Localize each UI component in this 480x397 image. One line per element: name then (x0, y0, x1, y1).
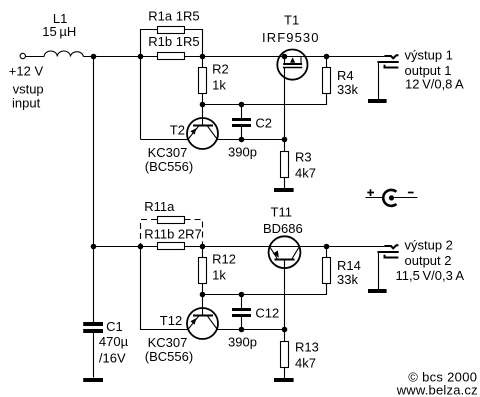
svg-text:výstup 2: výstup 2 (405, 237, 453, 252)
node rail left of R1b (138, 54, 144, 60)
capacitor C2 plate 2 (232, 124, 251, 127)
label R12 1k (212, 252, 236, 283)
resistor R1a (158, 27, 185, 34)
polarity plus sign (367, 189, 374, 196)
svg-text:12 V/0,8 A: 12 V/0,8 A (405, 76, 464, 91)
resistor R14 (323, 258, 331, 284)
wire input to L1 (26, 56, 45, 58)
transistor T1 circle (277, 50, 307, 80)
output 2 connector tip zigzag (384, 245, 398, 248)
svg-text:T1: T1 (284, 13, 299, 28)
svg-text:T2: T2 (170, 123, 185, 138)
capacitor C2 top lead (241, 105, 243, 119)
T2 emitter arrow (190, 128, 196, 135)
ground under output 1 (368, 99, 387, 103)
svg-text:R14: R14 (337, 258, 361, 273)
svg-text:R1a 1R5: R1a 1R5 (148, 8, 199, 23)
capacitor C1 bottom lead (93, 333, 95, 378)
node lower rail right of R11b (200, 244, 206, 250)
svg-text:R12: R12 (212, 252, 236, 267)
svg-text:C1: C1 (106, 319, 123, 334)
T2 base lead (202, 105, 204, 126)
T12 collector diagonal (208, 316, 218, 329)
svg-text:33k: 33k (337, 272, 358, 287)
resistor R13 (281, 342, 289, 368)
svg-text:R2: R2 (212, 62, 229, 77)
wire T2 collector to R3 node (217, 139, 285, 141)
resistor R4 top lead (326, 57, 328, 68)
node rail right of R1b (200, 54, 206, 60)
T12 emitter arrow (190, 318, 196, 325)
label C2 390p (228, 116, 272, 160)
output 1 connector contact hook (385, 65, 399, 68)
svg-text:R11b 2R7: R11b 2R7 (144, 226, 202, 241)
svg-text:+12 V: +12 V (9, 64, 44, 79)
node rail R4 top (324, 54, 330, 60)
label T12 KC307 (BC556) (145, 313, 193, 364)
wire gate line from R2 bottom to R4 bottom (203, 94, 327, 105)
resistor R12 top lead (202, 247, 204, 258)
T11 base bar (275, 259, 295, 261)
node T12-collector/T11-base/R13 junction (282, 327, 288, 333)
wire L1 to R1b (83, 56, 157, 58)
node T1 source on rail (282, 54, 288, 60)
svg-text:vstup: vstup (13, 81, 44, 96)
resistor R2 top lead (202, 57, 204, 68)
T11 emitter diagonal (270, 247, 277, 258)
node T2-collector/T1-gate/R3 junction (282, 137, 288, 143)
capacitor C12 plate 2 (232, 314, 251, 317)
polarity minus sign (408, 192, 414, 194)
output 2 connector contact hook (385, 255, 399, 258)
node R2/T2-base/gate-line junction (200, 102, 206, 108)
label vystup 2 / output 2 / 11,5V 0,3A (396, 237, 465, 283)
input terminal +12V (20, 53, 25, 58)
label T1 IRF9530 (262, 13, 320, 45)
label R3 4k7 (295, 150, 316, 181)
svg-text:R13: R13 (295, 340, 319, 355)
svg-text:11,5 V/0,3 A: 11,5 V/0,3 A (396, 268, 465, 283)
T1 drain stub (300, 57, 302, 64)
wire lower rail left (94, 246, 158, 248)
T1 source stub (284, 57, 286, 64)
wire lower rail R11b to output 2 (185, 246, 385, 248)
svg-text:390p: 390p (228, 145, 257, 160)
resistor R12 bottom lead (202, 284, 204, 295)
node lower rail / C1 branch (91, 244, 97, 250)
node C12 top (239, 292, 245, 298)
wire R1a branch left side (141, 30, 158, 140)
resistor R11b (158, 243, 185, 250)
svg-text:/16V: /16V (99, 351, 126, 366)
resistor R12 (199, 258, 207, 284)
svg-text:4k7: 4k7 (295, 165, 316, 180)
svg-text:KC307: KC307 (148, 335, 188, 350)
node C12 bottom (239, 327, 245, 333)
svg-text:1k: 1k (212, 268, 226, 283)
T2 base bar (193, 125, 213, 127)
output 1 ground lead (378, 63, 380, 99)
capacitor C2 bottom lead (241, 127, 243, 140)
ground under C1 (83, 378, 103, 382)
label R13 4k7 (295, 340, 319, 371)
label R14 33k (337, 258, 361, 287)
wire T12 emitter to left branch (141, 247, 189, 330)
node rail/C1 branch junction (91, 54, 97, 60)
svg-text:C2: C2 (255, 116, 272, 131)
svg-text:C12: C12 (255, 306, 279, 321)
wire base line from R12 bottom to R14 bottom (203, 284, 327, 295)
transistor T2 circle (187, 118, 218, 149)
node lower rail left of R11b (138, 244, 144, 250)
resistor R2 bottom lead (202, 94, 204, 105)
svg-text:BD686: BD686 (263, 221, 303, 236)
svg-text:4k7: 4k7 (295, 355, 316, 370)
polarity left lead (366, 197, 383, 199)
label R4 33k (337, 68, 358, 97)
transistor T12 circle (187, 308, 218, 339)
svg-text:IRF9530: IRF9530 (262, 30, 320, 45)
T1 gate lead down (284, 68, 286, 140)
label T11 BD686 (263, 205, 303, 237)
svg-text:390p: 390p (228, 335, 257, 350)
resistor R4 (323, 68, 331, 94)
label T2 KC307 (BC556) (145, 123, 193, 175)
svg-text:R3: R3 (295, 150, 312, 165)
capacitor C2 plate 1 (232, 118, 251, 121)
T11 emitter arrow (273, 251, 279, 258)
output 1 connector tip zigzag (384, 55, 398, 58)
node C2 top (239, 102, 245, 108)
node R12/T12-base junction (200, 292, 206, 298)
capacitor C12 bottom lead (241, 317, 243, 330)
node C2 bottom (239, 137, 245, 143)
label R2 1k (212, 62, 229, 93)
capacitor C1 plate 1 (83, 322, 103, 326)
capacitor C12 top lead (241, 295, 243, 309)
svg-text:www.belza.cz: www.belza.cz (396, 383, 478, 397)
output 2 connector sleeve bar (377, 251, 398, 253)
polarity barrel C ring (383, 190, 396, 206)
svg-text:input: input (12, 95, 41, 110)
svg-text:T12: T12 (160, 313, 182, 328)
svg-text:T11: T11 (271, 205, 292, 220)
svg-text:1k: 1k (212, 78, 226, 93)
svg-text:output 2: output 2 (405, 253, 452, 268)
resistor R11a (158, 217, 185, 224)
svg-text:R1b 1R5: R1b 1R5 (148, 34, 199, 49)
svg-text:470µ: 470µ (99, 334, 129, 349)
wire R11a dashed branch right (185, 220, 203, 247)
output 2 ground lead (378, 253, 380, 289)
wire main rail R1b to output 1 (185, 56, 385, 58)
resistor R14 top lead (326, 247, 328, 258)
ground under R13 (274, 378, 294, 382)
inductor L1 (44, 51, 83, 56)
label L1 15uH (42, 11, 76, 39)
ground under output 2 (368, 289, 387, 293)
output 1 connector sleeve bar (377, 61, 398, 63)
T1 gate bar (283, 67, 302, 69)
resistor R13 top lead (284, 330, 286, 342)
resistor R2 (199, 68, 207, 94)
resistor R3 top lead (284, 140, 286, 152)
resistor R1b (158, 53, 185, 60)
svg-text:R11a: R11a (144, 199, 175, 214)
resistor R13 bottom lead (284, 368, 286, 379)
resistor R3 bottom lead (284, 178, 286, 189)
capacitor C1 plate 2 (83, 329, 103, 333)
T1 substrate arrow (290, 57, 295, 62)
T11 collector diagonal (292, 247, 299, 258)
copyright bcs 2000 (396, 370, 478, 397)
svg-text:výstup 1: výstup 1 (405, 47, 453, 62)
T11 base lead down (284, 260, 286, 330)
svg-text:33k: 33k (337, 82, 358, 97)
T2 emitter diagonal (188, 126, 199, 139)
svg-text:KC307: KC307 (148, 145, 188, 160)
T12 base lead (202, 295, 204, 316)
label C12 390p (228, 306, 279, 350)
label +12 V / vstup / input (9, 64, 44, 111)
svg-text:(BC556): (BC556) (145, 349, 193, 364)
T1 channel bar (283, 63, 302, 65)
wire R1a branch right side (185, 30, 203, 57)
svg-text:15 µH: 15 µH (42, 24, 76, 39)
resistor R3 (281, 152, 289, 178)
svg-text:(BC556): (BC556) (145, 159, 193, 174)
wire T2 emitter to left branch (141, 139, 189, 141)
node lower rail R14 top (324, 244, 330, 250)
svg-text:R4: R4 (337, 68, 354, 83)
polarity center pin dot (389, 195, 394, 200)
wire vertical branch down to C1 (93, 57, 95, 323)
T12 emitter diagonal (188, 316, 199, 329)
label C1 470u /16V (99, 319, 129, 366)
T2 collector diagonal (208, 126, 218, 139)
T12 base bar (193, 315, 213, 317)
transistor T11 circle (269, 236, 301, 268)
polarity right lead (394, 197, 417, 199)
label vystup 1 / output 1 / 12V 0,8A (405, 47, 465, 91)
ground under R3 (274, 188, 294, 192)
wire R11a dashed branch left (141, 220, 158, 247)
capacitor C12 plate 1 (232, 308, 251, 311)
wire T12 collector to R13 node (217, 329, 285, 331)
